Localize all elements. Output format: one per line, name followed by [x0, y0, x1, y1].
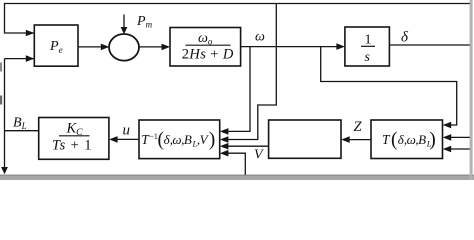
svg-text:u: u [123, 123, 131, 139]
svg-text:2Hs + D: 2Hs + D [182, 46, 234, 62]
svg-text:(: ( [391, 129, 398, 150]
svg-text:δ: δ [401, 30, 409, 46]
svg-text:): ) [429, 129, 436, 150]
svg-text:V: V [254, 148, 264, 163]
svg-text:): ) [209, 129, 216, 150]
svg-text:1: 1 [365, 33, 372, 48]
svg-text:s: s [365, 50, 371, 65]
svg-text:ω: ω [255, 30, 265, 45]
svg-text:δ,ω,BL,V: δ,ω,BL,V [164, 132, 210, 149]
svg-text:Ts + 1: Ts + 1 [52, 138, 92, 154]
svg-text:Z: Z [354, 119, 363, 135]
